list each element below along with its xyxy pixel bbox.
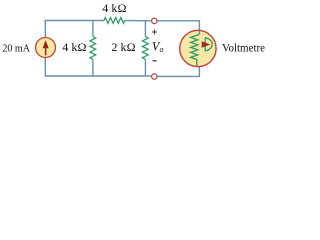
- wire stem 4k resistor bottom: [92, 59, 94, 76]
- wire entering voltmeter top (over fill): [198, 31, 200, 35]
- svg-text:2 kΩ: 2 kΩ: [111, 40, 135, 54]
- wire stem 2k resistor top: [144, 21, 146, 37]
- wire bottom terminal to voltmeter bottom: [157, 67, 199, 77]
- node terminal b bottom: [152, 74, 157, 79]
- resistor R2 4k vertical zigzag: [90, 37, 96, 60]
- svg-text:20 mA: 20 mA: [2, 42, 30, 54]
- resistor R1 4k horizontal zigzag: [104, 18, 125, 24]
- wire stem 4k resistor top: [92, 21, 94, 37]
- svg-text:Voltmetre: Voltmetre: [222, 41, 265, 54]
- voltmeter needle red triangle: [202, 41, 211, 48]
- wire stem 2k resistor bottom: [144, 59, 146, 76]
- label plus: [152, 29, 157, 34]
- wire left bottom: [45, 57, 151, 76]
- wire top right of 4k resistor to terminal: [125, 20, 152, 22]
- svg-text:o: o: [160, 45, 164, 54]
- label minus: [153, 60, 157, 62]
- node terminal a top: [152, 18, 157, 23]
- current source arrow up: [45, 47, 47, 55]
- resistor R3 2k vertical zigzag: [143, 37, 149, 60]
- current source I1 circle: [36, 38, 56, 58]
- wire top left horizontal: [45, 21, 104, 38]
- voltmeter internal resistor zigzag: [191, 34, 200, 66]
- voltmeter U1 circle: [180, 30, 216, 66]
- voltmeter needle scale arc: [205, 38, 212, 51]
- svg-text:4 kΩ: 4 kΩ: [102, 1, 126, 15]
- svg-text:4 kΩ: 4 kΩ: [62, 40, 86, 54]
- wire terminal to voltmeter top: [157, 21, 199, 34]
